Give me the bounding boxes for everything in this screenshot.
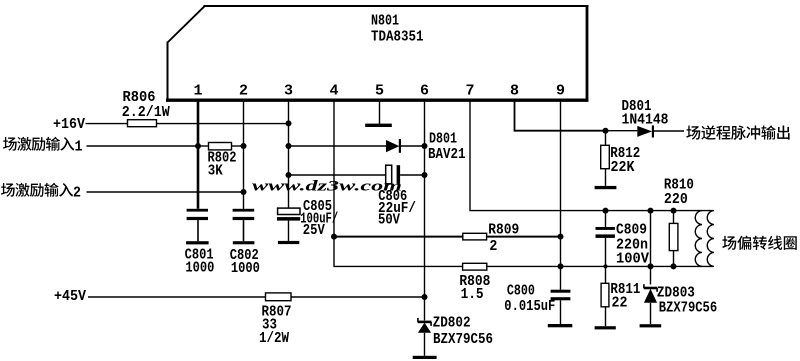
ground C802 — [233, 241, 255, 244]
junction pin6/+45V/ZD802 — [422, 294, 428, 300]
svg-text:3: 3 — [284, 83, 293, 100]
R807 labels 33 1/2W — [259, 304, 292, 347]
wire pin 7 lead to coil top — [470, 101, 714, 211]
svg-text:ZD802: ZD802 — [433, 315, 471, 332]
wire +16V to R806 — [86, 123, 128, 125]
ground C805 — [278, 241, 299, 244]
ground ZD802 — [413, 356, 437, 359]
svg-text:D801: D801 — [429, 131, 457, 148]
junction pin7 row / C809 — [603, 208, 609, 214]
D801 labels 1N4148 — [622, 98, 669, 128]
wire pin 9 lead — [560, 101, 562, 290]
ground R811 — [595, 326, 616, 329]
wire pin 6 lead — [424, 101, 426, 320]
capacitor C806 22uF/50V — [386, 165, 425, 184]
resistor R807 — [266, 293, 292, 301]
C809 labels 220n 100V — [616, 222, 649, 268]
ZD802 labels BZX79C56 — [433, 315, 493, 348]
resistor R812 — [601, 131, 610, 186]
R802 labels 3K — [208, 150, 237, 180]
diode D801 1N4148 — [637, 125, 684, 137]
ground C801 — [186, 241, 209, 244]
inductor field deflection coil winding 1 — [695, 211, 702, 267]
diode D801 BAV21 — [386, 139, 425, 153]
junction pin2/input1 — [241, 143, 247, 149]
wire pin 1 lead — [197, 101, 200, 209]
wire pin4 to R809 — [334, 236, 463, 238]
ZD803 labels BZX79C56 — [657, 285, 717, 317]
C805 labels 100uF/25V — [300, 198, 338, 239]
wire pin 2 lead — [243, 101, 245, 209]
C800 labels 0.015uF — [504, 283, 555, 315]
svg-text:8: 8 — [510, 83, 519, 100]
svg-text:220: 220 — [664, 191, 688, 208]
wire R802 to pin 2 — [232, 145, 244, 147]
wire R806 to pin 3 — [157, 123, 289, 125]
svg-text:9: 9 — [556, 83, 565, 100]
svg-text:1: 1 — [193, 83, 202, 100]
wire pin3 to C806 — [289, 174, 386, 176]
svg-text:22: 22 — [612, 295, 628, 312]
junction pin9/R808 — [558, 263, 564, 269]
zener diode ZD803 BZX79C56 — [644, 284, 658, 324]
junction pin3/+16V — [286, 120, 292, 126]
svg-text:1/2W: 1/2W — [259, 330, 289, 347]
junction pin3/C806 — [286, 172, 292, 178]
junction pin4/R809 — [331, 234, 337, 240]
junction ZD803/pin7 row — [648, 208, 654, 214]
op-amp IC N801 TDA8351 outline — [166, 5, 588, 102]
C801 labels 1000 — [185, 247, 215, 277]
svg-text:6: 6 — [420, 83, 429, 100]
junction R810/R808 row — [671, 263, 677, 269]
svg-text:BZX79C56: BZX79C56 — [659, 300, 718, 317]
svg-text:5: 5 — [375, 83, 384, 100]
wire pin 4 lead and R808 row to coil — [334, 101, 714, 266]
R808 labels 1.5 — [459, 273, 490, 303]
ground C800 — [548, 324, 573, 327]
R812 labels 22K — [610, 145, 640, 176]
svg-text:3K: 3K — [208, 163, 223, 180]
svg-text:2: 2 — [73, 184, 81, 201]
IC name label N801 TDA8351 — [371, 13, 424, 46]
svg-text:1.5: 1.5 — [461, 286, 484, 303]
resistor R806 — [128, 120, 157, 127]
svg-text:7: 7 — [465, 83, 474, 100]
net label field flyback pulse output (CJK) — [686, 125, 789, 139]
capacitor C805 100uF/25V — [277, 208, 300, 241]
ground ZD803 — [640, 324, 662, 327]
wire +45V to R807 — [88, 296, 266, 298]
resistor R808 — [463, 263, 487, 270]
svg-text:2.2/1W: 2.2/1W — [122, 104, 170, 121]
wire input1 to pin 1 — [87, 145, 199, 147]
svg-text:0.015uF: 0.015uF — [504, 298, 555, 315]
resistor R809 — [463, 233, 487, 240]
wire pin 3 lead — [288, 101, 290, 208]
svg-text:TDA8351: TDA8351 — [371, 29, 424, 46]
svg-text:1N4148: 1N4148 — [622, 112, 669, 129]
svg-text:1000: 1000 — [185, 260, 214, 277]
svg-text:+16V: +16V — [53, 116, 85, 133]
net label field drive input 1 (CJK) — [3, 137, 83, 156]
ground R812 — [595, 186, 617, 189]
R806 labels 2.2/1W — [122, 89, 170, 121]
R809 labels 2 — [488, 221, 519, 254]
resistor R802 — [209, 143, 232, 150]
C806 labels 22uF/50V — [378, 188, 416, 229]
svg-text:BZX79C56: BZX79C56 — [433, 331, 493, 348]
junction pin1/input1 — [195, 143, 201, 149]
resistor R810 — [669, 211, 678, 267]
svg-text:1000: 1000 — [231, 260, 260, 277]
wire pin7 row to ZD803 — [650, 211, 652, 285]
svg-text:R809: R809 — [488, 221, 519, 238]
R810 labels 220 — [664, 176, 694, 208]
junction pin6/C806 — [422, 172, 428, 178]
D801 labels BAV21 — [428, 131, 466, 164]
svg-text:22K: 22K — [611, 159, 635, 176]
wire pin 5 lead — [379, 101, 381, 124]
R811 labels 22 — [610, 281, 640, 312]
junction pin9/R809 — [558, 234, 564, 240]
svg-text:N801: N801 — [371, 13, 399, 30]
wire pin8 node to D801 1N4148 anode — [606, 130, 638, 132]
net label field deflection coil (CJK) — [722, 236, 796, 250]
capacitor C802 1000 — [233, 209, 255, 241]
svg-text:2: 2 — [489, 238, 497, 255]
resistor R811 — [601, 266, 609, 326]
junction pin8/R812/D801 — [603, 128, 609, 134]
wire R807 to pin 6 — [291, 296, 425, 298]
junction pin3/D801 — [286, 143, 292, 149]
wire pin 8 lead — [515, 100, 606, 131]
zener diode ZD802 BZX79C56 — [418, 318, 432, 356]
svg-text:BAV21: BAV21 — [428, 146, 466, 163]
wire R809 to pin9 node — [487, 236, 561, 238]
wire input2 to pin 2 — [87, 191, 244, 193]
capacitor C801 1000 — [187, 209, 208, 241]
ground pin 5 — [365, 124, 392, 127]
capacitor C809 220n/100V — [596, 211, 615, 267]
junction ZD803/R808 row — [648, 263, 654, 269]
capacitor C800 0.015uF — [551, 290, 571, 324]
junction R810/pin7 row — [671, 208, 677, 214]
junction pin6/D801 — [422, 143, 428, 149]
wire pin1 to R802 — [198, 145, 209, 147]
svg-text:1: 1 — [75, 138, 83, 155]
inductor field deflection coil winding 2 — [707, 211, 714, 267]
svg-text:2: 2 — [239, 83, 248, 100]
svg-text:25V: 25V — [303, 222, 325, 239]
wire pin3 to D801 anode — [289, 145, 387, 147]
svg-text:4: 4 — [329, 83, 338, 100]
C802 labels 1000 — [230, 247, 260, 277]
svg-text:+45V: +45V — [54, 288, 86, 305]
svg-text:50V: 50V — [378, 211, 400, 228]
svg-text:100V: 100V — [616, 251, 649, 268]
junction C809/R811 on R808 row — [603, 264, 607, 268]
junction pin2/input2 — [241, 189, 247, 195]
net label field drive input 2 (CJK) — [1, 183, 81, 202]
